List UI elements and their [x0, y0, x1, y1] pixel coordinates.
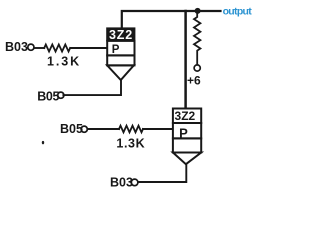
wire B03 bottom to U2 apex [138, 165, 186, 183]
terminal B05 upper circle [58, 92, 64, 98]
svg-text:1.3K: 1.3K [116, 136, 145, 150]
svg-text:B05: B05 [60, 122, 83, 136]
op-amp U2 inverter block bottom [173, 109, 201, 165]
svg-text:P: P [179, 126, 188, 141]
svg-text:output: output [223, 6, 253, 18]
resistor R2 1.3K [119, 126, 143, 133]
wire B05 input to R2 [88, 128, 120, 130]
svg-text:B05: B05 [37, 89, 59, 103]
svg-text:B03: B03 [110, 175, 133, 189]
wire R1 to U1 input pin [70, 47, 107, 49]
resistor R1 1.3K [44, 45, 70, 52]
wire B05 to U1 bottom apex [63, 81, 121, 96]
svg-text:B03: B03 [5, 40, 28, 54]
terminal B05 mid circle [81, 126, 87, 132]
resistor R3 pull-up [194, 13, 200, 65]
node output junction dot [195, 8, 201, 14]
op-amp U1 inverter block top [106, 27, 135, 80]
terminal +6 circle [194, 65, 200, 71]
terminal B03 bottom circle [131, 179, 138, 186]
svg-text:P: P [112, 44, 120, 56]
svg-text:1.3K: 1.3K [47, 55, 81, 69]
wire vertical branch bus to U2 top pin [184, 11, 187, 108]
svg-text:3Z2: 3Z2 [175, 109, 196, 123]
wire B03 input to R1 [34, 47, 44, 49]
ink speck artifact [42, 141, 44, 144]
terminal B03 top circle [28, 44, 34, 50]
wire R2 to U2 input pin [143, 128, 172, 130]
wire top bus from U1 top pin to output [122, 11, 221, 28]
svg-text:3Z2: 3Z2 [109, 28, 133, 42]
svg-text:+6: +6 [187, 73, 201, 87]
